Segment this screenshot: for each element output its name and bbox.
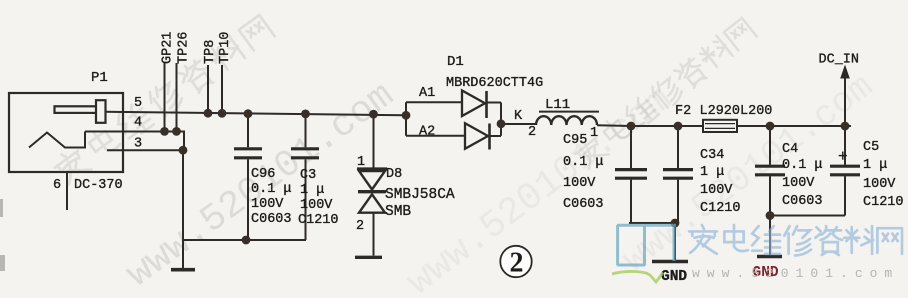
svg-text:P1: P1 — [91, 70, 108, 86]
wire ground bus 2 — [629, 222, 678, 224]
svg-text:C3: C3 — [300, 168, 316, 183]
svg-text:C4: C4 — [782, 142, 798, 157]
svg-text:DC_IN: DC_IN — [819, 53, 860, 68]
node TP10/wire5 — [218, 109, 227, 118]
capacitor C3 plates — [291, 147, 319, 150]
node GP21/wire4 — [160, 127, 169, 136]
node D8 — [369, 110, 378, 119]
inductor L11 loops — [536, 116, 597, 125]
plug barrel bar — [55, 106, 97, 113]
capacitor C95 plates — [615, 168, 647, 171]
svg-text:C95: C95 — [563, 133, 587, 148]
svg-text:C1210: C1210 — [700, 201, 741, 216]
node DC_IN/C5 — [841, 122, 850, 131]
node C96 — [244, 109, 253, 118]
svg-text:4: 4 — [134, 116, 142, 131]
node C96 ground — [242, 236, 251, 245]
svg-text:100V: 100V — [563, 176, 596, 191]
node ground bus2 — [671, 219, 680, 228]
wire GP21 testpoint line — [164, 63, 166, 131]
blue watermark 家电维修资料网 bottom right — [689, 225, 902, 255]
svg-text:100V: 100V — [863, 177, 896, 192]
ground 2 drop — [674, 223, 676, 260]
node C95 — [627, 122, 636, 131]
node TP26/wire4 — [172, 127, 181, 136]
node C3 — [301, 110, 310, 119]
wire TP8 testpoint line — [207, 65, 209, 113]
capacitor C34 leads — [677, 126, 679, 168]
svg-text:D1: D1 — [447, 54, 464, 70]
diode D1 upper cathode bar — [485, 91, 488, 118]
svg-text:F2: F2 — [675, 104, 691, 119]
dual diode D1 left vertical — [405, 102, 407, 135]
svg-text:6: 6 — [53, 178, 61, 193]
svg-text:2: 2 — [510, 248, 524, 279]
svg-text:5: 5 — [134, 96, 142, 111]
svg-text:D8: D8 — [386, 167, 402, 182]
svg-text:100V: 100V — [782, 176, 815, 191]
capacitor C3 leads — [305, 114, 307, 147]
svg-text:TP10: TP10 — [218, 32, 233, 64]
wire ground bus 1 — [183, 239, 306, 241]
svg-text:K: K — [514, 109, 523, 124]
svg-text:0.1 μ: 0.1 μ — [563, 155, 604, 170]
svg-text:1 μ: 1 μ — [700, 165, 724, 180]
ground symbol 1 — [182, 240, 184, 268]
teal site logo — [617, 225, 676, 266]
diode D1 lower cathode bar — [488, 124, 491, 150]
wire pin6 stub — [66, 172, 68, 210]
svg-text:C5: C5 — [863, 140, 879, 155]
capacitor C4 leads — [769, 126, 771, 165]
svg-text:1: 1 — [590, 126, 598, 141]
svg-text:C1210: C1210 — [863, 195, 904, 210]
DC_IN arrow head — [840, 65, 850, 79]
svg-text:100V: 100V — [251, 197, 284, 212]
wire pin3 — [107, 149, 183, 151]
inductor L11 top bar — [539, 111, 599, 113]
D1 branch A2 wire — [406, 135, 465, 137]
fuse F2 body — [703, 120, 737, 132]
svg-text:100V: 100V — [700, 183, 733, 198]
node F2 right — [766, 122, 775, 131]
svg-text:100V: 100V — [300, 198, 333, 213]
capacitor C96 plates — [234, 147, 262, 150]
connector P1 box — [9, 93, 123, 172]
D1 right vertical — [500, 103, 502, 136]
svg-text:C96: C96 — [251, 167, 275, 182]
TVS diode D8 bottom lead — [373, 213, 375, 256]
capacitor C5 leads — [844, 126, 846, 165]
ground symbol 3 bar — [757, 255, 782, 258]
green wavy underline of logo — [612, 271, 663, 282]
svg-text:3: 3 — [134, 137, 142, 152]
DC_IN line — [844, 78, 846, 126]
wire TP26 testpoint line — [176, 63, 178, 131]
svg-text:A2: A2 — [419, 125, 435, 140]
svg-text:C0603: C0603 — [563, 197, 604, 212]
svg-text:2: 2 — [528, 125, 536, 140]
D8 ground bar — [355, 256, 382, 259]
D1 upper wire to right — [487, 102, 502, 104]
capacitor C4 plates — [755, 165, 785, 168]
edge scan marks — [0, 199, 5, 271]
svg-text:GP21: GP21 — [161, 32, 176, 64]
node wire3/wire4 — [179, 146, 188, 155]
svg-text:C0603: C0603 — [251, 212, 292, 227]
wire node3 drop to ground bus — [182, 150, 184, 240]
svg-text:1 μ: 1 μ — [300, 183, 324, 198]
svg-text:+: + — [838, 148, 848, 166]
wire pin4 to corner — [85, 132, 184, 151]
svg-text:C1210: C1210 — [298, 213, 339, 228]
chevron switch contact — [29, 132, 85, 148]
svg-text:1: 1 — [357, 155, 365, 170]
svg-text:2: 2 — [356, 219, 364, 234]
capacitor C95 leads — [630, 126, 632, 168]
capacitor C34 plates — [663, 168, 693, 171]
capacitor C96 leads — [247, 114, 249, 148]
node C34/F2 — [674, 122, 683, 131]
svg-text:C34: C34 — [700, 148, 724, 163]
wire L11 to C95 node — [597, 124, 703, 127]
node D1 left — [402, 111, 411, 120]
node ground bus3 — [766, 211, 775, 220]
svg-text:0.1 μ: 0.1 μ — [782, 158, 823, 173]
svg-text:SMB: SMB — [385, 204, 411, 220]
node TP8/wire5 — [204, 109, 213, 118]
diode D1 lower triangle — [465, 123, 488, 149]
capacitor C5 plates — [830, 165, 860, 168]
svg-text:www.520101.com: www.520101.com — [692, 266, 899, 281]
wire TP10 testpoint line — [221, 65, 223, 113]
svg-text:GND: GND — [661, 269, 687, 285]
svg-text:SMBJ58CA: SMBJ58CA — [385, 187, 455, 203]
wire K node to inductor — [501, 123, 536, 125]
svg-text:C0603: C0603 — [782, 194, 823, 209]
watermark gray band middle: 家电维修资料网 — [572, 16, 758, 172]
svg-text:MBRD620CTT4G: MBRD620CTT4G — [446, 76, 543, 91]
svg-text:TP8: TP8 — [203, 40, 218, 64]
watermark gray band top-left: 家电维修资料网 — [51, 12, 276, 187]
diode D1 upper triangle — [462, 91, 485, 117]
svg-text:0.1 μ: 0.1 μ — [251, 182, 292, 197]
svg-text:DC-370: DC-370 — [74, 178, 123, 193]
page number circle 2 — [500, 246, 531, 277]
svg-text:A1: A1 — [419, 86, 435, 101]
svg-text:TP26: TP26 — [177, 32, 192, 64]
plug tip rectangle — [96, 100, 106, 123]
node D1 right K — [497, 119, 506, 128]
svg-text:L11: L11 — [545, 97, 570, 113]
svg-text:L2920L200: L2920L200 — [700, 104, 773, 119]
wire ground bus 3 — [770, 215, 845, 217]
D1 lower wire to right — [490, 135, 502, 137]
TVS diode D8 top lead — [373, 114, 375, 168]
schematic text labels — [53, 32, 904, 285]
wire pin5 main wire left segment — [105, 112, 406, 116]
svg-text:1 μ: 1 μ — [863, 158, 887, 173]
ground 3 drop — [769, 216, 771, 256]
ground symbol 2 bar — [652, 260, 688, 263]
D1 branch A1 wire — [406, 101, 462, 103]
wire F2 to DC_IN node — [737, 125, 851, 127]
TVS diode D8 symbol — [357, 167, 387, 170]
